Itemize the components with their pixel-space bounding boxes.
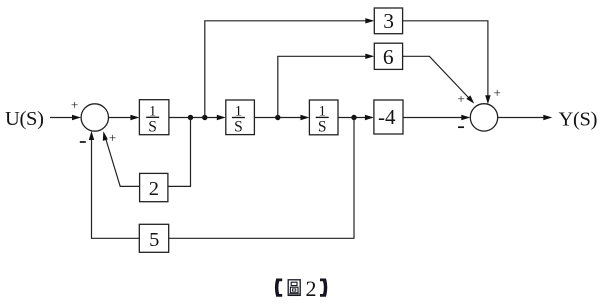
minus sign at S2 left input xyxy=(458,126,464,128)
integrator block G3 (1/s) xyxy=(309,100,338,136)
wire G1 to G2 xyxy=(169,117,219,119)
wire block 2 diagonal to S1 bottom-right xyxy=(106,139,140,186)
svg-text:+: + xyxy=(71,97,78,112)
wire U(S) to summing junction S1 xyxy=(50,117,73,119)
minus sign at S1 bottom-left (from block 5) xyxy=(80,141,86,143)
svg-text:+: + xyxy=(109,130,116,145)
svg-text:3: 3 xyxy=(383,9,394,33)
wire block 6 diagonal to S2 upper-left xyxy=(403,56,469,98)
caption closing bracket xyxy=(320,279,327,297)
node B (junction dot, to block 3) xyxy=(202,115,207,120)
svg-text:6: 6 xyxy=(383,45,394,69)
output wire S2 to Y(S) xyxy=(498,117,545,119)
summing junction S1 xyxy=(81,104,108,131)
svg-text:5: 5 xyxy=(149,229,159,251)
wire -4 to summing junction S2 xyxy=(403,117,462,119)
svg-text:S: S xyxy=(148,118,157,135)
caption character 圖 (figure) xyxy=(288,280,300,296)
gain block 2 xyxy=(140,173,168,201)
wire block 3 to S2 top xyxy=(403,21,488,96)
wire block 5 left and up to S1 bottom xyxy=(92,137,140,239)
gain block -4 xyxy=(374,100,403,134)
svg-text:2: 2 xyxy=(306,276,317,301)
svg-text:Y(S): Y(S) xyxy=(559,108,598,130)
svg-text:U(S): U(S) xyxy=(5,108,44,130)
wire node D down and left to block 5 xyxy=(169,118,354,239)
svg-text:S: S xyxy=(318,119,327,136)
wire node C up and right to block 6 xyxy=(278,56,366,117)
wire G3 to gain -4 xyxy=(338,117,367,119)
summing junction S2 xyxy=(470,104,497,131)
node A (junction dot, to block 2) xyxy=(188,115,193,120)
svg-text:S: S xyxy=(234,119,243,136)
svg-text:-4: -4 xyxy=(378,105,396,129)
integrator block G1 (1/s) xyxy=(139,100,169,136)
wire node A down and left to block 2 xyxy=(168,118,191,187)
wire S1 to integrator G1 xyxy=(109,117,132,119)
wire node B up and right to block 3 xyxy=(205,21,366,118)
wire G2 to G3 xyxy=(254,117,302,119)
gain block 3 xyxy=(374,8,402,34)
gain block 6 xyxy=(374,43,402,69)
svg-text:2: 2 xyxy=(149,178,159,200)
svg-text:+: + xyxy=(494,85,501,100)
node D (junction dot, to block 5) xyxy=(351,115,356,120)
caption opening bracket xyxy=(275,279,282,297)
gain block 5 xyxy=(139,224,168,252)
integrator block G2 (1/s) xyxy=(226,100,255,136)
node C (junction dot, to block 6) xyxy=(275,115,280,120)
